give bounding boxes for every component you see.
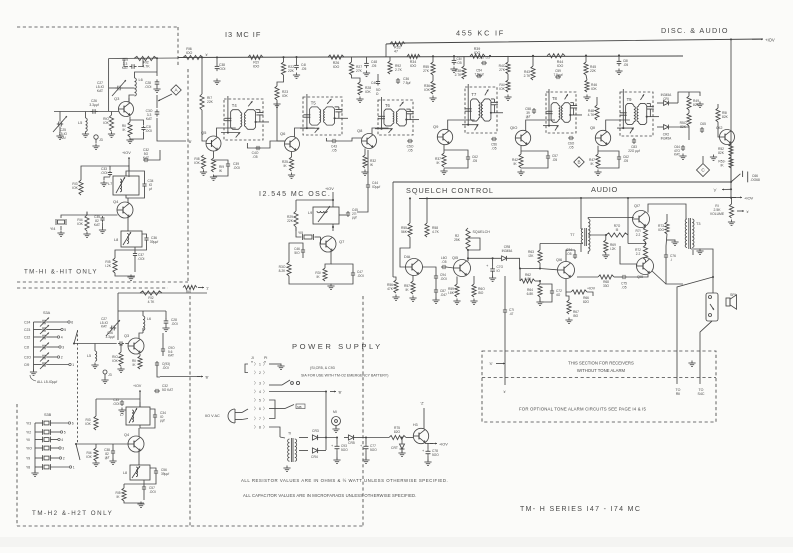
IF transformer T5 <box>303 97 342 135</box>
ground R42 <box>520 170 522 173</box>
svg-text:〉: 〉 <box>263 389 267 394</box>
resistor R1 2.5K volume <box>729 204 733 218</box>
node Z power <box>423 408 425 429</box>
wire disc middle <box>688 126 690 133</box>
svg-text:QII: QII <box>590 125 595 130</box>
capacitor C66 .0068 <box>742 171 744 177</box>
resistor R50 82K <box>687 113 691 126</box>
resistor R14 10K <box>85 215 89 231</box>
svg-text:DIA: DIA <box>404 255 411 259</box>
wire C93 <box>336 438 338 445</box>
svg-text:3.3μμf: 3.3μμf <box>89 103 98 107</box>
svg-text:JI: JI <box>251 356 254 360</box>
svg-text:+IOV: +IOV <box>133 384 142 388</box>
capacitor C76 .1 <box>665 253 667 255</box>
svg-text:5OO: 5OO <box>432 453 439 457</box>
wire R66 <box>566 279 571 293</box>
svg-text:56K: 56K <box>401 230 408 234</box>
svg-text:Q4: Q4 <box>124 433 129 437</box>
wire pin4 B line <box>269 391 326 393</box>
svg-text:2.2: 2.2 <box>636 252 641 256</box>
interstage transformer T7a <box>584 228 586 246</box>
wire C37 down <box>134 247 136 252</box>
wire C78 <box>427 443 429 449</box>
ground C78 <box>427 460 429 463</box>
resistor R56s 4.7K <box>425 223 429 237</box>
ground R73 <box>667 239 675 241</box>
transistor Q15 <box>454 260 471 277</box>
resistor R28 10K <box>358 82 362 95</box>
svg-text:+IOV: +IOV <box>744 196 754 201</box>
svg-text:4: 4 <box>61 336 63 340</box>
svg-text:Q5: Q5 <box>201 130 207 135</box>
svg-text:μf: μf <box>149 187 152 191</box>
svg-text:+IOV: +IOV <box>587 287 596 291</box>
wire audio emitters <box>645 242 647 245</box>
svg-text:L7: L7 <box>120 413 124 417</box>
capacitor C90 5.6 <box>162 347 164 349</box>
resistor R42 1K <box>519 154 523 168</box>
resistor R27 27K <box>349 62 353 75</box>
wire C47 <box>331 264 353 271</box>
connector J3b <box>103 370 107 374</box>
ground C35 <box>102 228 104 231</box>
svg-text:S4C: S4C <box>698 392 705 396</box>
wire plug to pins <box>242 409 248 413</box>
svg-text:DISC. & AUDIO: DISC. & AUDIO <box>661 26 729 35</box>
svg-text:YI5: YI5 <box>298 231 303 235</box>
wire C77 <box>365 438 367 445</box>
TM-H2 dashed box top edge <box>17 287 168 289</box>
capacitor C87 .047 <box>435 288 437 290</box>
wire L6b frame <box>118 310 166 312</box>
wire Q6 base <box>277 100 285 141</box>
capacitor C57 .05 <box>547 154 549 156</box>
capacitor C26b 3.3uuf <box>118 343 120 345</box>
transistor Q4 (TM-H1) <box>117 202 133 218</box>
resistor R70 15 <box>606 233 628 237</box>
svg-text:〉: 〉 <box>254 370 258 375</box>
ground J1 pin1 <box>280 364 282 367</box>
svg-text:.O5: .O5 <box>568 145 573 149</box>
svg-text:82K: 82K <box>680 125 687 129</box>
svg-text:.OOI: .OOI <box>171 322 178 326</box>
capacitor C64 470 <box>682 145 684 147</box>
wire C76 <box>666 234 667 253</box>
svg-text:J3: J3 <box>108 373 112 377</box>
IF supply rail <box>178 56 683 58</box>
squelch pot R2 25K <box>466 228 470 250</box>
svg-text:22K: 22K <box>288 69 295 73</box>
svg-text:.O5: .O5 <box>623 63 628 67</box>
resistor R41 10K <box>506 80 510 92</box>
diode CR8 IN345A <box>502 256 507 261</box>
wire C62a <box>444 150 468 155</box>
ground R10 <box>111 132 113 135</box>
diode CR2 IN345A <box>664 125 669 130</box>
transistor Q16 <box>558 262 575 279</box>
wire pins 5-8 bus <box>269 400 275 419</box>
capacitor C34b 10uuf <box>154 413 156 415</box>
resistor R57 1K <box>411 281 415 294</box>
svg-text:.O5: .O5 <box>566 252 571 256</box>
diode CR3 <box>312 435 317 440</box>
transistor Q8 <box>362 134 377 149</box>
wire R68 C75 <box>577 276 598 278</box>
wire L8b C56b <box>150 468 156 469</box>
wire C66 <box>731 174 740 182</box>
svg-text:.O5: .O5 <box>621 285 626 289</box>
svg-text:.OOI: .OOI <box>357 274 364 278</box>
svg-text:QIO: QIO <box>510 125 517 130</box>
wire C72 <box>540 284 552 289</box>
resistor R37 1K <box>442 153 446 167</box>
ground R37 <box>443 169 445 172</box>
resistor R30 8.2K <box>287 262 291 276</box>
resistor R45 22K <box>584 62 588 75</box>
resistor R92 2.7K <box>388 61 392 74</box>
resistor R55s 56K <box>408 223 412 237</box>
squelch top line <box>393 181 731 183</box>
tone alarm divider <box>482 377 716 379</box>
wire osc +10V down <box>332 192 334 207</box>
svg-text:QI5: QI5 <box>452 256 458 260</box>
svg-text:L7: L7 <box>108 182 112 186</box>
svg-text:.OOI: .OOI <box>113 402 120 406</box>
svg-text:IOK: IOK <box>499 87 505 91</box>
resistor R18 10K <box>201 155 205 169</box>
scan shading band bottom <box>0 537 793 547</box>
wire Q12 base <box>718 122 720 137</box>
wire Q3 base input <box>54 111 119 113</box>
wire X stub <box>504 364 506 385</box>
svg-text:2: 2 <box>259 371 261 375</box>
svg-text:4.7K: 4.7K <box>588 113 596 117</box>
svg-text:1: 1 <box>259 363 261 367</box>
wire Q3 collector up <box>129 95 135 102</box>
svg-text:(SI,CR5, & C93: (SI,CR5, & C93 <box>310 366 335 370</box>
capacitor C91 .001 <box>156 361 158 363</box>
svg-text:'z': 'z' <box>205 53 208 57</box>
svg-text:.OOI: .OOI <box>138 257 145 261</box>
svg-text:'z': 'z' <box>746 210 749 214</box>
svg-text:TM- H SERIES I47 - I74 MC: TM- H SERIES I47 - I74 MC <box>520 506 641 513</box>
resistor R46 10K <box>585 80 589 92</box>
wire L7 top to supply <box>128 165 130 171</box>
resistor R71 2.2 <box>643 227 647 242</box>
svg-text:.O5: .O5 <box>407 148 412 152</box>
svg-text:KAT: KAT <box>97 89 103 93</box>
svg-text:.O5: .O5 <box>441 260 446 264</box>
ground R14 <box>86 232 88 235</box>
svg-text:IO: IO <box>497 269 501 273</box>
ground R1 <box>731 220 733 223</box>
svg-text:L5: L5 <box>78 121 82 125</box>
svg-text:IOK: IOK <box>85 422 91 426</box>
svg-text:1: 1 <box>73 466 75 470</box>
ground R64 <box>539 300 541 303</box>
wire T5 out <box>326 138 331 141</box>
capacitor C38 .001 <box>216 64 218 67</box>
wire disc rail drop <box>730 39 732 182</box>
svg-text:2.7K: 2.7K <box>524 74 532 78</box>
resistor R13b 10K <box>94 416 98 430</box>
svg-text:L9: L9 <box>308 211 312 215</box>
resistor R34 100 <box>407 54 420 58</box>
resistor R44 100 <box>547 54 565 58</box>
ground C41 <box>296 73 298 76</box>
svg-text:〉: 〉 <box>263 398 267 403</box>
svg-text:L8: L8 <box>114 238 118 242</box>
svg-text:IOK: IOK <box>77 222 83 226</box>
capacitor C62b .05 <box>618 155 620 157</box>
ground C48 <box>366 71 368 74</box>
resistor R47 1K <box>596 154 600 168</box>
svg-text:YIO: YIO <box>26 447 32 451</box>
svg-text:L6: L6 <box>147 317 151 321</box>
ground C70 <box>492 276 494 279</box>
trimmer C27b <box>110 327 112 329</box>
capacitor C56b 39uuf <box>155 469 157 471</box>
svg-text:H3: H3 <box>413 423 418 427</box>
svg-text:7.5μμf: 7.5μμf <box>475 72 484 76</box>
ground C28 <box>156 87 158 90</box>
J1 pins 1-2 jumper <box>245 364 248 373</box>
svg-text:PI: PI <box>264 356 267 360</box>
svg-text:〉: 〉 <box>254 381 258 386</box>
resistor R31 1K <box>323 268 327 281</box>
svg-text:7.5μf: 7.5μf <box>403 81 410 85</box>
svg-text:82O: 82O <box>394 430 401 434</box>
ground R25 <box>291 173 293 176</box>
svg-text:'z': 'z' <box>206 287 209 291</box>
svg-text:L6: L6 <box>139 78 143 82</box>
ground R67 <box>568 318 570 321</box>
svg-text:3: 3 <box>62 346 64 350</box>
svg-text:IOK: IOK <box>591 87 597 91</box>
diode CR5 <box>348 435 353 440</box>
wire C71 line <box>504 276 506 308</box>
svg-text:I.8K: I.8K <box>448 291 455 295</box>
svg-text:TM-HI &-HIT ONLY: TM-HI &-HIT ONLY <box>24 269 98 276</box>
capacitor C58 39uuf <box>533 108 535 110</box>
svg-text:S3B: S3B <box>44 413 52 417</box>
squelch left edge <box>392 182 394 277</box>
svg-text:82O: 82O <box>583 300 590 304</box>
inductor L5b <box>95 351 97 361</box>
wire CR4 <box>299 450 308 452</box>
resistor R36 10K <box>431 81 435 94</box>
svg-text:7.5μμf: 7.5μμf <box>554 73 563 77</box>
resistor R17 22K <box>200 94 204 110</box>
svg-text:I3 MC IF: I3 MC IF <box>225 30 261 39</box>
IF transformer T8 <box>546 92 576 133</box>
svg-text:C65: C65 <box>700 122 706 126</box>
capacitor C56 .05 <box>491 138 493 140</box>
svg-text:Q3: Q3 <box>124 334 129 338</box>
svg-text:6.8K: 6.8K <box>527 292 535 296</box>
wire R63 <box>539 244 541 251</box>
wire T4 secondary out <box>247 141 285 148</box>
ground T3 <box>699 249 701 252</box>
wire Q7 base <box>320 237 323 244</box>
resistor R64 6.8K <box>538 284 542 297</box>
svg-text:5: 5 <box>64 328 66 332</box>
svg-text:C2I: C2I <box>24 346 29 350</box>
svg-text:KAT: KAT <box>146 117 152 121</box>
wire R30 bottom <box>289 276 331 284</box>
ground J3b <box>104 378 106 381</box>
svg-text:+IOV: +IOV <box>765 38 775 43</box>
ground J3 <box>95 144 97 147</box>
trimmer cap C25 <box>57 123 59 125</box>
S3B wiper <box>76 444 80 460</box>
capacitor C61a .05 <box>453 58 455 61</box>
S3A bus <box>33 322 35 371</box>
svg-text:.OOI: .OOI <box>101 171 108 175</box>
svg-text:5IO: 5IO <box>294 251 300 255</box>
wire audio out frame <box>648 204 686 219</box>
transistor Q5 <box>206 136 221 151</box>
svg-text:T6: T6 <box>385 103 391 108</box>
svg-text:'X': 'X' <box>489 362 493 366</box>
+10V audio arrow <box>733 196 742 198</box>
svg-text:T8: T8 <box>552 96 558 101</box>
capacitor C93 500 <box>336 444 338 446</box>
wire C32 <box>148 150 160 160</box>
wire pin4 vertical <box>325 392 327 451</box>
wire Q16 collector up <box>566 250 575 262</box>
svg-text:SIB: SIB <box>297 405 302 409</box>
svg-text:.O5: .O5 <box>301 67 306 71</box>
svg-text:.O5: .O5 <box>252 155 257 159</box>
svg-text:'Z': 'Z' <box>421 402 425 406</box>
capacitor C65 <box>701 127 703 129</box>
ground CR7 <box>401 451 403 454</box>
ground R69 <box>605 253 607 256</box>
transistor Q3 (TM-H1) <box>119 102 134 117</box>
ground R19 <box>213 175 215 178</box>
ground C33b <box>121 408 123 411</box>
capacitor C54 7.5uuf <box>476 75 478 77</box>
resistor R56b 47K <box>394 280 398 293</box>
capacitor C50 .05 <box>407 140 409 142</box>
svg-text:22K: 22K <box>287 219 294 223</box>
AC plug <box>228 409 235 423</box>
capacitor C28b .001 <box>165 318 167 321</box>
switch linkage dashed <box>77 330 79 443</box>
TM-H1 dashed box top edge <box>17 26 178 28</box>
svg-text:22K: 22K <box>590 69 597 73</box>
wire C57 <box>521 151 548 154</box>
svg-text:2.2: 2.2 <box>636 233 641 237</box>
ground S3B <box>34 471 36 474</box>
svg-text:6: 6 <box>71 321 73 325</box>
svg-text:RI6: RI6 <box>186 290 191 294</box>
diode CR1 IN345A <box>664 101 669 106</box>
wire C35 <box>102 222 104 228</box>
svg-text:SIA FOR USE WITH TM-O2 EMERG: SIA FOR USE WITH TM-O2 EMERGENCY BATTERY… <box>301 374 388 378</box>
svg-text:I5: I5 <box>616 228 619 232</box>
capacitor C28 .001 <box>156 79 158 82</box>
transistor H3 <box>413 428 428 443</box>
ground Y14 <box>60 231 62 234</box>
ground L5 <box>85 132 87 135</box>
capacitor C35 82 <box>102 216 104 218</box>
wire Q5 collector to T4 <box>217 128 236 137</box>
svg-text:〉: 〉 <box>254 425 258 430</box>
svg-text:SQUELCH CONTROL: SQUELCH CONTROL <box>406 186 494 195</box>
svg-text:.O5: .O5 <box>371 64 376 68</box>
ground R60 <box>473 299 475 302</box>
svg-text:μμf: μμf <box>352 216 357 220</box>
wire C44 up <box>367 150 369 183</box>
svg-text:THIS SECTION FOR RECEIVERS: THIS SECTION FOR RECEIVERS <box>568 361 634 366</box>
capacitor C46 510 <box>302 248 304 250</box>
capacitor C36b 7.5uuf <box>397 78 399 80</box>
wire C70 <box>492 258 494 267</box>
wire C94 C87 <box>435 271 437 274</box>
svg-text:4: 4 <box>259 390 261 394</box>
svg-text:82K: 82K <box>693 103 700 107</box>
wire R14 <box>86 212 88 215</box>
resistor R33 47 <box>390 42 405 46</box>
wire L6 branch <box>156 58 158 76</box>
capacitor C40b <box>377 80 379 82</box>
wire R15b bottom <box>124 501 144 503</box>
svg-text:QI2: QI2 <box>716 125 723 130</box>
svg-text:5: 5 <box>259 399 261 403</box>
resistor R25 1K <box>289 157 293 171</box>
svg-text:IOO: IOO <box>658 228 664 232</box>
wire C46 <box>296 243 303 248</box>
wire L9 C45 frame <box>339 214 348 216</box>
svg-text:IOK: IOK <box>365 90 371 94</box>
svg-text:Q4: Q4 <box>113 199 119 204</box>
switch S1B <box>269 408 285 410</box>
svg-text:T3: T3 <box>696 222 700 226</box>
capacitor C74 .05 <box>574 253 576 255</box>
svg-text:YI2: YI2 <box>26 431 31 435</box>
resistor R39 100 <box>470 54 485 58</box>
ground C77 <box>365 458 367 461</box>
connector J3 <box>94 135 98 139</box>
svg-text:YI4: YI4 <box>50 227 55 231</box>
svg-text:〉: 〉 <box>263 425 267 430</box>
transistor Q7 <box>320 236 336 252</box>
svg-text:C23: C23 <box>24 328 30 332</box>
svg-text:C2O: C2O <box>24 356 31 360</box>
audio supply rail <box>419 198 736 199</box>
wire Y drop <box>730 182 732 198</box>
svg-text:82K: 82K <box>718 151 725 155</box>
wire Q16 base <box>540 269 557 270</box>
svg-text:I.2K: I.2K <box>105 264 112 268</box>
IF transformer T9 <box>620 92 653 136</box>
capacitor C62a .05 <box>467 155 469 157</box>
output transformer T3 <box>688 218 690 249</box>
capacitor C57b .001 <box>143 485 145 487</box>
wire Q3 collector to C30 <box>128 98 130 102</box>
node C diamond <box>697 164 710 177</box>
ground R18 <box>203 170 205 173</box>
wire L7b frame <box>139 402 141 407</box>
svg-text:〉: 〉 <box>254 406 258 411</box>
wire to tone alarm 1 <box>677 277 713 384</box>
svg-text:POWER SUPPLY: POWER SUPPLY <box>292 342 383 351</box>
svg-text:3.3μμf: 3.3μμf <box>106 335 115 339</box>
svg-text:IOK: IOK <box>282 94 288 98</box>
